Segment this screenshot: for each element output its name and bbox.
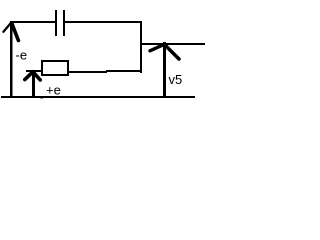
svg-text:+e: +e (46, 83, 61, 98)
svg-text:-e: -e (16, 48, 28, 63)
svg-text:v5: v5 (169, 72, 183, 87)
